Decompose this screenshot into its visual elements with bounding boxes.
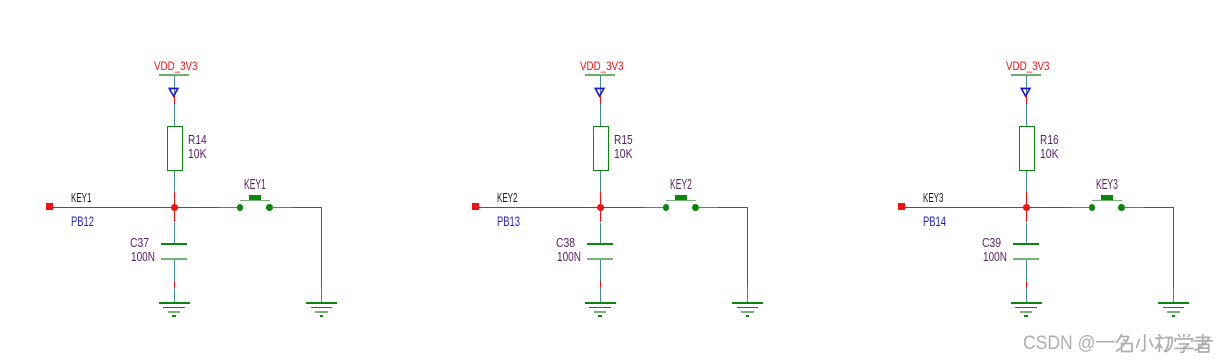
switch KEY2 bar [666,200,696,202]
net label PB13 [497,214,520,228]
port square KEY3 [898,203,905,210]
power symbol VDD_3V3 bar [159,74,189,76]
pin segment (red) below power symbol [600,96,602,103]
wire corner down (red) [1173,207,1175,287]
wire port to junction to switch (red) [53,207,219,209]
switch KEY2 right contact dot [692,204,699,211]
wire to right ground (teal) [1173,287,1175,303]
wire switch to corner (red) [1144,207,1174,209]
ground symbol below capacitor [158,302,190,318]
wire port to junction to switch (red) [905,207,1071,209]
wire power to resistor [174,104,176,126]
capacitor C39 bottom plate [1013,258,1039,260]
pin segment (red) above ground [174,281,176,287]
resistor R16 body [1019,126,1035,172]
wire resistor to junction (teal) [174,171,176,192]
switch KEY1 bar [240,200,270,202]
switch KEY2 actuator cap [675,195,687,200]
switch KEY1 left contact dot [237,204,244,211]
wire switch to corner (red) [292,207,322,209]
wire power to resistor [1026,104,1028,126]
net label PB14 [923,214,946,228]
resistor value 10K [1040,147,1059,160]
wire to right ground (teal) [321,287,323,303]
capacitor C38 top plate [587,243,612,245]
wire capacitor down (teal) [1026,260,1028,281]
capacitor C37 top plate [161,243,186,245]
switch 1 designator KEY1 [244,177,266,192]
switch left pin wire (teal) [645,207,664,209]
capacitor C38 bottom plate [587,258,613,260]
capacitor designator C37 [130,236,149,249]
wire capacitor down (teal) [174,260,176,281]
pin segment (red) below power symbol [1026,96,1028,103]
resistor designator R16 [1040,133,1059,146]
net label KEY1 [71,192,91,205]
wire corner down (red) [747,207,749,287]
resistor designator R15 [614,133,633,146]
ground symbol right [306,302,338,318]
wire power bar to triangle [600,76,602,96]
capacitor value 100N [557,250,581,263]
capacitor value 100N [983,250,1007,263]
switch KEY3 bar [1092,200,1122,202]
port square KEY1 [46,203,53,210]
watermark text CSDN @ [1023,334,1095,354]
power symbol VDD_3V3 bar [1011,74,1041,76]
pin segment (red) above ground [1026,281,1028,287]
wire to ground (teal) [174,287,176,303]
ground symbol right [732,302,764,318]
wire power bar to triangle [174,76,176,96]
power symbol triangle [593,87,607,98]
wire junction to capacitor (teal) [600,223,602,244]
wire junction to capacitor (teal) [174,223,176,244]
pin segment (red) below power symbol [174,96,176,103]
resistor value 10K [188,147,207,160]
switch left pin wire (teal) [1071,207,1090,209]
capacitor C37 bottom plate [161,258,187,260]
wire power to resistor [600,104,602,126]
net label KEY2 [497,192,517,205]
net label KEY3 [923,192,943,205]
capacitor C39 top plate [1013,243,1038,245]
ground symbol right [1158,302,1190,318]
resistor R14 body [167,126,183,172]
watermark CJK glyphs (一名小初学者) [1096,334,1218,356]
power net label VDD_3V3 [580,62,623,74]
switch KEY2 left contact dot [663,204,670,211]
switch KEY1 right contact dot [266,204,273,211]
wire port to junction to switch (red) [479,207,645,209]
junction dot [597,204,604,211]
switch KEY3 left contact dot [1089,204,1096,211]
switch right pin wire (teal) [698,207,718,209]
switch right pin wire (teal) [1124,207,1144,209]
resistor designator R14 [188,133,207,146]
power net label VDD_3V3 [154,62,197,74]
capacitor value 100N [131,250,155,263]
resistor R15 body [593,126,609,172]
ground symbol below capacitor [584,302,616,318]
power symbol VDD_3V3 bar [585,74,615,76]
wire corner down (red) [321,207,323,287]
switch 2 designator KEY2 [670,177,692,192]
wire to ground (teal) [1026,287,1028,303]
wire resistor to junction (teal) [1026,171,1028,192]
wire vertical through junction (red) [1026,192,1028,222]
switch right pin wire (teal) [272,207,292,209]
power symbol triangle [167,87,181,98]
wire resistor to junction (teal) [600,171,602,192]
power symbol triangle [1019,87,1033,98]
power net label VDD_3V3 [1006,62,1049,74]
capacitor designator C38 [556,236,575,249]
wire capacitor down (teal) [600,260,602,281]
ground symbol below capacitor [1010,302,1042,318]
wire power bar to triangle [1026,76,1028,96]
wire vertical through junction (red) [600,192,602,222]
switch KEY3 right contact dot [1118,204,1125,211]
net label PB12 [71,214,94,228]
pin segment (red) above ground [600,281,602,287]
switch KEY1 actuator cap [249,195,261,200]
wire switch to corner (red) [718,207,748,209]
junction dot [171,204,178,211]
wire vertical through junction (red) [174,192,176,222]
junction dot [1023,204,1030,211]
wire to right ground (teal) [747,287,749,303]
resistor value 10K [614,147,633,160]
wire to ground (teal) [600,287,602,303]
wire junction to capacitor (teal) [1026,223,1028,244]
port square KEY2 [472,203,479,210]
capacitor designator C39 [982,236,1001,249]
switch KEY3 actuator cap [1101,195,1113,200]
switch left pin wire (teal) [219,207,238,209]
switch 3 designator KEY3 [1096,177,1118,192]
